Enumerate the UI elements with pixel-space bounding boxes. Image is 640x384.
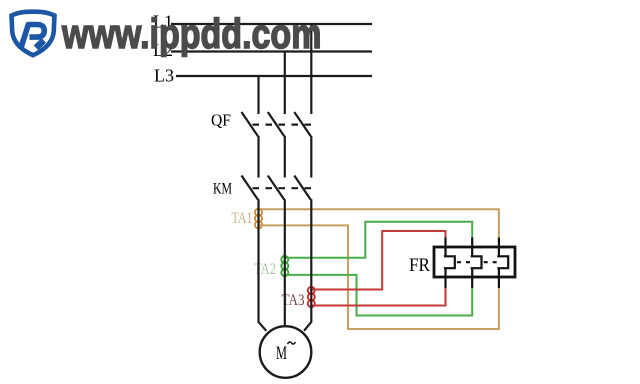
FR linkage dashed 1 <box>457 261 471 263</box>
contactor KM pole 3 blade <box>294 176 311 200</box>
svg-text:TA1: TA1 <box>232 210 253 227</box>
motor tilde <box>288 342 296 344</box>
FR heater pole 2 <box>471 238 482 289</box>
wire drop phase C from L1 <box>310 24 312 114</box>
svg-text:TA2: TA2 <box>254 261 276 278</box>
svg-text:M: M <box>276 343 287 364</box>
CT TA1 coil <box>255 209 262 229</box>
wire KM to motor phase C <box>304 199 311 330</box>
motor M circle <box>260 326 312 378</box>
CT TA2 coil <box>281 256 288 276</box>
logo shield <box>12 12 55 56</box>
FR heater pole 3 <box>497 238 508 289</box>
breaker QF linkage dashed <box>253 123 312 125</box>
contactor KM pole 1 blade <box>242 176 259 200</box>
node L1 <box>153 12 372 32</box>
wire drop phase B from L2 <box>284 52 286 115</box>
wire TA2 secondary green <box>285 222 472 316</box>
wire L3 bus <box>176 75 372 77</box>
breaker QF pole 2 blade <box>268 112 285 136</box>
wire L2 bus <box>171 50 372 52</box>
node L3 <box>154 66 372 86</box>
svg-text:QF: QF <box>211 111 231 130</box>
wire L1 bus <box>171 23 372 25</box>
wire QF to KM pole 2 <box>284 136 286 178</box>
logo P <box>21 23 45 49</box>
svg-text:L3: L3 <box>154 66 174 86</box>
svg-text:FR: FR <box>409 255 430 276</box>
wire TA3 secondary red <box>311 231 445 306</box>
contactor KM pole 2 blade <box>268 176 285 200</box>
wire QF to KM pole 1 <box>257 136 259 178</box>
contactor KM linkage dashed <box>253 187 312 189</box>
CT TA3 coil <box>308 287 315 307</box>
FR heater pole 1 <box>444 238 455 289</box>
breaker QF pole 3 blade <box>294 112 311 136</box>
wire drop phase A from L3 <box>257 76 259 114</box>
wire KM to motor phase A <box>259 199 267 330</box>
FR linkage dashed 2 <box>484 261 498 263</box>
breaker QF pole 1 blade <box>242 112 259 136</box>
wire QF to KM pole 3 <box>310 136 312 178</box>
wire KM to motor phase B <box>284 199 286 327</box>
node L2 <box>153 40 372 60</box>
wire TA1 secondary orange <box>259 209 499 329</box>
svg-text:KM: KM <box>213 181 232 198</box>
thermal relay FR box <box>434 247 515 277</box>
svg-text:www.ippdd.com: www.ippdd.com <box>61 11 321 58</box>
